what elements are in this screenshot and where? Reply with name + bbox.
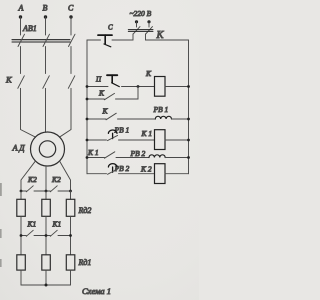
supply terminal right	[147, 20, 150, 27]
node RV1 right	[187, 118, 190, 121]
resistor Rd2 middle	[42, 199, 51, 216]
wire rotor star join	[21, 284, 71, 286]
switch linkage bar	[128, 30, 153, 32]
coil RV2	[149, 155, 165, 158]
node C terminal	[68, 4, 74, 19]
resistor Rd2 right	[66, 199, 75, 216]
contact K blade RV1 row	[106, 113, 116, 120]
contact RV2 delay symbol	[108, 164, 117, 173]
svg-text:РВ 1: РВ 1	[114, 126, 130, 135]
wire phase C mid	[70, 47, 72, 74]
wire phase B mid	[45, 47, 47, 74]
contact K selfhold blade	[104, 93, 114, 99]
node K1 right	[187, 139, 190, 142]
wire K1 row left	[87, 139, 107, 141]
svg-text:К: К	[102, 107, 109, 116]
wire left rail	[86, 40, 88, 174]
contact K pole B	[43, 76, 50, 89]
switch blade right pole	[146, 27, 153, 35]
svg-text:К: К	[156, 30, 165, 41]
wire top line right segment	[146, 39, 189, 41]
svg-text:П: П	[95, 76, 102, 84]
node RV2 right	[187, 156, 190, 159]
node K1 left	[86, 139, 89, 142]
svg-text:~220 В: ~220 В	[130, 9, 152, 18]
node P row left	[86, 85, 89, 88]
wire phase B top	[45, 17, 47, 35]
contact K2 left blade	[26, 186, 33, 192]
node K2 bridge junctions	[20, 190, 72, 193]
wire switch pole drops	[133, 34, 146, 40]
svg-text:АВ1: АВ1	[22, 24, 37, 33]
svg-text:АД: АД	[12, 144, 26, 153]
wire selfhold row right	[116, 87, 139, 100]
wire RV1 row left	[87, 118, 106, 120]
breaker AB1 blade pole A	[18, 34, 25, 46]
resistor Rd1 middle	[42, 255, 51, 270]
contact RV2 blade	[108, 169, 118, 174]
wire right rail	[188, 40, 190, 174]
svg-text:К2: К2	[27, 175, 37, 184]
svg-text:В: В	[43, 4, 48, 13]
node selfhold left	[86, 98, 89, 101]
wire K1 row mid	[119, 139, 155, 141]
svg-text:Схема 1: Схема 1	[82, 286, 111, 296]
resistor Rd1 left	[17, 255, 26, 270]
breaker AB1 blade pole B	[43, 34, 50, 46]
scan smudge 1	[0, 183, 2, 196]
wire rotor lead middle	[45, 166, 47, 191]
supply terminal left	[135, 20, 138, 27]
node A terminal	[18, 4, 24, 19]
wire K2 bridge mid	[34, 190, 50, 192]
svg-text:РВ 2: РВ 2	[130, 149, 146, 158]
svg-text:К 2: К 2	[140, 165, 152, 174]
wire K1 row right	[165, 139, 189, 141]
coil K1	[155, 130, 166, 150]
wire phase A top	[20, 17, 22, 35]
wire P row left	[87, 86, 108, 88]
breaker AB1 linkage bar	[12, 40, 70, 42]
button C stop symbol	[98, 35, 112, 47]
scan smudge 3	[0, 259, 2, 267]
wire K2 row right	[165, 173, 189, 175]
wire RV2 row mid	[116, 157, 149, 159]
wire K2 row mid	[119, 173, 155, 175]
coil RV1	[155, 116, 171, 119]
button P start symbol	[107, 75, 119, 86]
node RV1 left	[86, 118, 89, 121]
wire rotor lead right	[59, 161, 70, 191]
wire top line mid segment	[112, 39, 133, 41]
wire selfhold row left	[87, 98, 104, 100]
svg-text:К: К	[98, 89, 105, 98]
wire phase C lower	[59, 88, 71, 137]
svg-text:К1: К1	[52, 220, 62, 229]
coil K2	[155, 164, 166, 184]
svg-text:РВ 1: РВ 1	[153, 105, 169, 114]
wire K2 row left	[87, 173, 107, 175]
wire phase A mid	[20, 47, 22, 74]
svg-text:Rд1: Rд1	[78, 258, 92, 267]
wire RV1 row right	[172, 118, 189, 120]
wire phase B lower	[45, 88, 47, 132]
wire K2 bridge right	[58, 190, 71, 192]
motor AD rotor circle	[39, 141, 55, 157]
node star point	[45, 284, 48, 287]
svg-text:К: К	[145, 69, 152, 78]
wire columns above Rd2	[21, 191, 71, 199]
svg-text:К2: К2	[51, 175, 61, 184]
wire K1 bridge mid	[34, 235, 50, 237]
contact K1 left blade	[26, 230, 33, 236]
scan smudge 2	[0, 229, 2, 238]
resistor Rd2 left	[17, 199, 26, 216]
svg-text:С: С	[108, 24, 113, 32]
coil K	[155, 77, 166, 97]
resistor Rd1 right	[66, 255, 75, 270]
contact K pole C	[68, 76, 75, 89]
wire columns below Rd1	[21, 270, 71, 285]
motor AD stator circle	[31, 132, 65, 166]
node RV2 left	[86, 156, 89, 159]
node B terminal	[43, 4, 48, 19]
contact K1 blade RV2 row	[105, 152, 115, 158]
wire phase C top	[70, 17, 72, 35]
node P row right	[187, 85, 190, 88]
wire coil K to right rail	[165, 86, 189, 88]
wire phase A lower	[21, 88, 36, 137]
wire top line left segment	[87, 39, 101, 41]
wire RV2 row right	[165, 157, 188, 159]
wire RV1 row mid	[118, 118, 156, 120]
breaker AB1 blade pole C	[69, 34, 76, 46]
wire K1 bridge right	[58, 235, 71, 237]
wire rotor lead left	[21, 161, 36, 191]
contact K1 right blade	[50, 230, 57, 236]
svg-text:К 1: К 1	[87, 148, 99, 157]
contact K2 right blade	[50, 186, 57, 192]
node P row mid junction	[137, 85, 140, 88]
wire columns between resistors	[21, 216, 71, 255]
node K1 bridge junctions	[20, 234, 72, 237]
wire K1 bridge row	[21, 235, 26, 237]
contact RV1 blade	[108, 135, 118, 140]
switch blade left pole	[133, 27, 140, 35]
wire RV2 row left	[87, 157, 105, 159]
contact K pole A	[18, 76, 25, 89]
wire P row right to coil	[122, 86, 155, 88]
svg-text:К 1: К 1	[141, 129, 153, 138]
svg-text:Rд2: Rд2	[78, 206, 92, 215]
svg-text:К1: К1	[27, 220, 37, 229]
wire K2 bridge row	[21, 190, 26, 192]
contact RV1 delay symbol	[108, 130, 117, 139]
svg-text:А: А	[18, 4, 24, 13]
svg-text:С: С	[68, 4, 74, 13]
